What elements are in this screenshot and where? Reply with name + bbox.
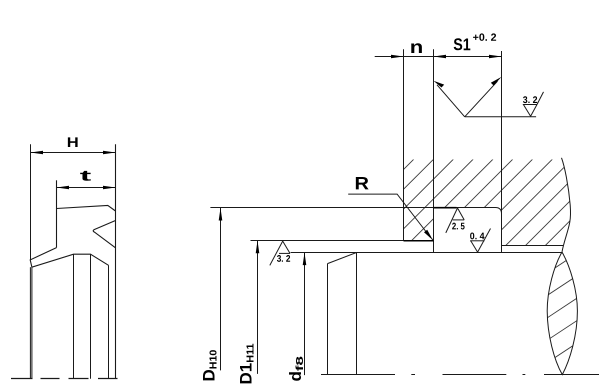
surface finish V arrows	[437, 81, 536, 117]
roughness symbol 3.2 on D1 bore	[270, 241, 290, 265]
rod centerline	[321, 374, 599, 376]
svg-text:D1H11: D1H11	[237, 343, 257, 384]
extension line t / seal left upper edge	[56, 180, 58, 247]
seal leg line left a	[29, 267, 31, 379]
rod top surface / d extension line	[291, 252, 562, 254]
arrow H right	[103, 151, 116, 155]
svg-text:3. 2: 3. 2	[523, 95, 538, 106]
hatching housing section	[173, 0, 600, 392]
rod chamfer	[328, 253, 357, 264]
arrowhead to groove right wall	[491, 77, 502, 86]
roughness symbol 2.5 groove ceiling	[446, 208, 464, 233]
arrowhead R	[424, 230, 433, 241]
top dimension line n S1	[375, 56, 502, 58]
groove ceiling object segment	[434, 207, 457, 209]
extension line H left	[30, 144, 32, 260]
dimension line D1	[257, 241, 259, 374]
svg-text:S1: S1	[453, 35, 471, 54]
break curve housing right	[562, 158, 571, 252]
arrow t right	[103, 186, 116, 190]
extension line groove right wall	[501, 51, 503, 252]
svg-text:0. 4: 0. 4	[470, 231, 485, 242]
roughness symbol 3.2 top	[523, 92, 544, 116]
hatching rod break lens	[530, 200, 590, 392]
rod chamfer projection line	[356, 253, 358, 376]
dimension line d	[304, 253, 306, 376]
arrow D up	[219, 208, 223, 221]
arrowhead to groove left wall	[433, 81, 444, 88]
dimension line t	[57, 187, 116, 189]
arrow n left outside	[391, 55, 404, 59]
dimension line H	[31, 152, 116, 154]
seal leg line left b	[31, 267, 33, 379]
extension line gland left edge top	[403, 49, 405, 241]
svg-text:R: R	[354, 173, 369, 193]
groove ceiling / D extension line	[210, 207, 495, 209]
housing bottom-left face / D1 extension line	[251, 240, 434, 242]
rod left end edge	[327, 264, 329, 375]
svg-text:H: H	[67, 134, 79, 150]
extension line H right / seal right edge	[115, 144, 117, 378]
arrow S1 right	[489, 55, 502, 59]
svg-text:3. 2: 3. 2	[277, 254, 291, 265]
arrow t left	[57, 186, 70, 190]
svg-text:df8: df8	[286, 356, 306, 382]
housing bottom-left face object segment	[404, 240, 434, 242]
break lens rod	[547, 252, 577, 375]
seal break feet	[11, 378, 118, 380]
dimension line D	[220, 208, 222, 370]
arrow D1 up	[256, 241, 260, 254]
svg-text:+0. 2: +0. 2	[473, 32, 497, 44]
leader R	[348, 194, 430, 237]
groove corner radius	[496, 208, 502, 214]
roughness symbol 0.4 rod surface	[470, 229, 490, 253]
seal leg line right-inner	[108, 265, 110, 378]
seal leg line center-right	[90, 254, 92, 379]
arrow d up	[303, 253, 307, 266]
svg-text:t: t	[80, 168, 92, 185]
seal leg line center-left	[73, 254, 75, 379]
arrow S1 left	[434, 55, 447, 59]
seal profile upper-left slope	[30, 248, 108, 268]
svg-text:DH10: DH10	[200, 350, 220, 382]
seal profile top edge	[57, 205, 116, 211]
svg-text:n: n	[410, 37, 424, 57]
svg-text:2. 5: 2. 5	[452, 221, 466, 232]
arrow H left	[31, 151, 44, 155]
housing bottom-right face	[502, 245, 564, 247]
extension line groove left wall	[433, 49, 435, 252]
seal profile notch	[93, 221, 115, 248]
